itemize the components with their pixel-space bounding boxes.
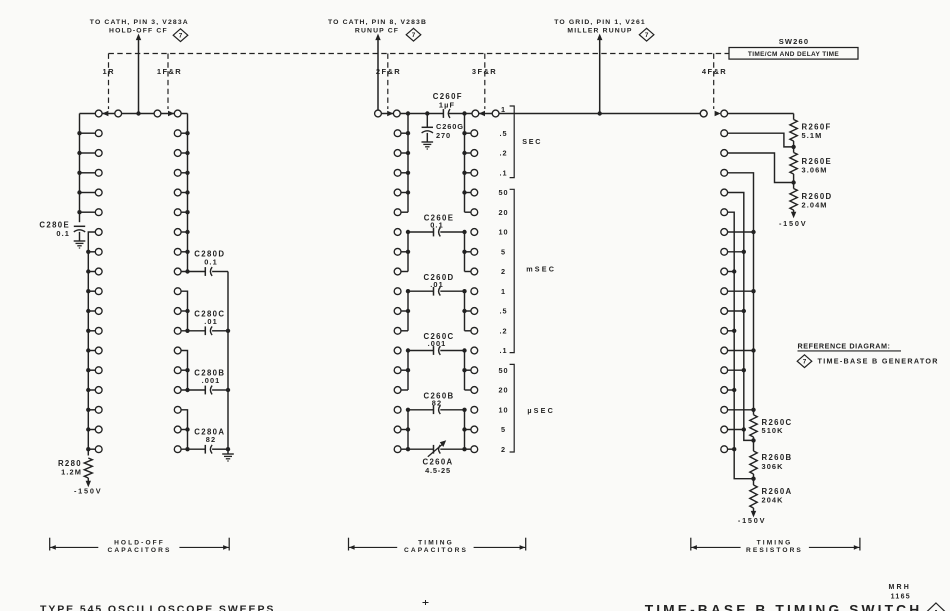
section bracket: hold-off capacitors [49, 538, 51, 551]
svg-text:REFERENCE DIAGRAM:: REFERENCE DIAGRAM: [798, 341, 891, 350]
contact wafer1 left row 10 [95, 308, 102, 315]
contact wafer1 left row 8 [95, 268, 102, 275]
svg-text:0.1: 0.1 [430, 221, 444, 230]
wire: wafer4 bus A (1-2-5 decade) [727, 173, 753, 415]
wafer actuating line 1R [108, 54, 110, 110]
ground (C280E) [74, 240, 86, 242]
contact wafer4 row 12 [721, 347, 728, 354]
svg-text:.1: .1 [499, 168, 507, 177]
svg-text:20: 20 [498, 386, 508, 395]
svg-text:2F&R: 2F&R [376, 67, 401, 76]
capacitor C260C .001 [408, 350, 434, 352]
contact wafer2 left row 10 [394, 308, 401, 315]
contact wafer1 right row 13 [174, 367, 181, 374]
resistor R260C 510K [750, 415, 757, 437]
capacitor C260E 0.1 [408, 231, 434, 233]
svg-text:82: 82 [432, 398, 442, 407]
junction R260E/R260D [791, 180, 795, 184]
wire: wafer2 left bus rows 6-8 [407, 232, 409, 272]
resistor R260B 306K [753, 440, 755, 451]
junction C260G tap [425, 111, 429, 115]
contact wafer1 left row 2 [95, 150, 102, 157]
title end diamond (clipped) [926, 603, 947, 611]
contact wafer2 right row 2 [471, 150, 478, 157]
contact wafer2 left row 1 [394, 130, 401, 137]
contact wafer2 right row 6 [471, 229, 478, 236]
svg-text:TIMING: TIMING [418, 539, 454, 546]
svg-text:1F&R: 1F&R [157, 67, 182, 76]
wire: wafer1 left bus lower [88, 232, 95, 456]
contact wafer2 right row 8 [471, 268, 478, 275]
contact wafer2 left row 3 [394, 169, 401, 176]
resistor R280 1.2M [84, 458, 92, 478]
wire: wafer2 right bus rows 6-8 [464, 232, 466, 272]
contact runup lead [375, 110, 382, 117]
wire: wafer4 bus C [727, 212, 753, 479]
contact wafer1 right row 16 [174, 426, 181, 433]
contact wafer4 row 1 [721, 130, 728, 137]
svg-text:C260G: C260G [436, 122, 464, 131]
contact wafer2 right row 12 [471, 347, 478, 354]
wire: wafer4 row2 to R260E junction [727, 153, 793, 183]
contact wafer1 left row 7 [95, 248, 102, 255]
wafer actuating line 3F&R [484, 54, 486, 110]
contact wafer2 right row 13 [471, 367, 478, 374]
contact wafer2 left row 6 [394, 229, 401, 236]
contact wafer1 right row 2 [174, 150, 181, 157]
contact wafer1 right row 7 [174, 248, 181, 255]
contact wafer4 row 2 [721, 150, 728, 157]
wire: wafer2 left bus rows 15-17 [407, 410, 409, 449]
contact wafer2 right row 7 [471, 248, 478, 255]
svg-text:TIME-BASE B GENERATOR: TIME-BASE B GENERATOR [818, 357, 939, 366]
contact wafer4 row 17 [721, 446, 728, 453]
contact wafer4 row 13 [721, 367, 728, 374]
wire: wafer2 right bus rows 15-17 [464, 410, 466, 449]
contact wafer2 left row 5 [394, 209, 401, 216]
contact wafer2 left row 15 [394, 406, 401, 413]
contact wafer4 row 5 [721, 209, 728, 216]
wire: wafer2 right bus upper [464, 114, 466, 213]
switch SW260 name box [729, 48, 858, 60]
contact wafer4 row 3 [721, 169, 728, 176]
contact wafer2 right row 10 [471, 308, 478, 315]
contact wafer2 right row 16 [471, 426, 478, 433]
svg-text:CAPACITORS: CAPACITORS [404, 547, 468, 554]
svg-text:7: 7 [412, 32, 416, 39]
reference diamond 7 (runup) [406, 28, 421, 41]
svg-text:1µF: 1µF [439, 100, 455, 109]
contact wafer2 left row 12 [394, 347, 401, 354]
contact 1R rotor b [115, 110, 122, 117]
svg-text:1165: 1165 [891, 594, 911, 601]
wire: runup output lead with up arrow [377, 40, 379, 110]
svg-text:.01: .01 [430, 280, 444, 289]
svg-text:50: 50 [498, 188, 508, 197]
svg-text:TIME-BASE B TIMING SWITCH: TIME-BASE B TIMING SWITCH [645, 602, 923, 611]
contact wafer1 right row 15 [174, 406, 181, 413]
contact wafer4 row 8 [721, 268, 728, 275]
contact wafer1 left row 9 [95, 288, 102, 295]
svg-text:.001: .001 [202, 376, 221, 385]
wire: wafer1 right bus upper [187, 114, 189, 272]
contact wafer1 right row 4 [174, 189, 181, 196]
svg-text:0.1: 0.1 [204, 258, 218, 267]
contact wafer2 right row 15 [471, 406, 478, 413]
svg-text:.5: .5 [499, 307, 507, 316]
svg-text:510K: 510K [762, 426, 784, 435]
ground (C260G) [422, 141, 434, 143]
svg-text:RUNUP CF: RUNUP CF [355, 27, 399, 34]
svg-text:50: 50 [498, 366, 508, 375]
svg-text:7: 7 [803, 359, 807, 366]
junction on timing bus at miller lead [598, 111, 602, 115]
wafer actuating line 2F&R [387, 54, 389, 110]
contact wafer1 left row 12 [95, 347, 102, 354]
svg-text:10: 10 [498, 405, 508, 414]
wire to -150V (R280) [87, 478, 89, 482]
contact wafer1 right row 14 [174, 387, 181, 394]
svg-text:20: 20 [498, 208, 508, 217]
contact wafer1 left row 5 [95, 209, 102, 216]
svg-text:MRH: MRH [889, 584, 912, 591]
contact wafer1 left row 17 [95, 446, 102, 453]
contact wafer4 row 11 [721, 327, 728, 334]
capacitor C260D .01 [408, 290, 434, 292]
contact wafer1 right row 10 [174, 308, 181, 315]
wire: miller runup lead with up arrow [599, 40, 601, 114]
contact wafer1 right row 12 [174, 347, 181, 354]
contact wafer4 rotor b [721, 110, 728, 117]
reference diamond 7 (hold-off) [173, 29, 188, 42]
bracket uSEC [510, 364, 515, 452]
contact wafer1 right row 17 [174, 446, 181, 453]
contact wafer2 left row 16 [394, 426, 401, 433]
svg-text:TIMING: TIMING [757, 539, 793, 546]
svg-text:TIME/CM AND DELAY TIME: TIME/CM AND DELAY TIME [748, 51, 840, 58]
svg-text:2: 2 [501, 267, 506, 276]
contact 3F&R target [472, 110, 479, 117]
reference diamond 7 (time-base B generator) [797, 355, 812, 368]
wire: wafer1 left bus upper [79, 114, 81, 223]
switch SW260 mechanical linkage (dashed) [109, 53, 730, 55]
wire: wafer2 left bus upper [407, 114, 409, 213]
svg-text:HOLD-OFF: HOLD-OFF [114, 539, 165, 546]
contact wafer4 row 7 [721, 248, 728, 255]
contact wafer1 right row 9 [174, 288, 181, 295]
svg-text:-150V: -150V [779, 219, 807, 228]
wafer actuating line 4F&R [713, 54, 715, 110]
svg-text:10: 10 [498, 228, 508, 237]
capacitor C260G 270 [426, 114, 428, 128]
capacitor C280E [74, 225, 85, 227]
capacitor C260B 82 [408, 409, 434, 411]
contact wafer4 row 9 [721, 288, 728, 295]
contact 1R rotor a [95, 110, 102, 117]
junction R260F/R260E [791, 145, 795, 149]
wire: wafer1 right bus group rows 9-11 [181, 291, 188, 331]
wire: wafer4 bus B [727, 193, 753, 441]
svg-text:5.1M: 5.1M [802, 131, 823, 140]
capacitor C260F 1uF (series) [442, 109, 444, 118]
svg-text:MILLER RUNUP: MILLER RUNUP [567, 27, 632, 34]
contact wafer1 right row 6 [174, 229, 181, 236]
contact wafer2 right row 17 [471, 446, 478, 453]
contact wafer2 right row 5 [471, 209, 478, 216]
capacitor C280D 0.1 [204, 267, 206, 276]
contact wafer4 row 14 [721, 387, 728, 394]
resistor R260D 2.04M [793, 183, 795, 189]
svg-text:TYPE 545 OSCILLOSCOPE SWEEPS: TYPE 545 OSCILLOSCOPE SWEEPS [40, 604, 275, 611]
contact wafer1 left row 1 [95, 130, 102, 137]
svg-text:TO GRID, PIN 1, V261: TO GRID, PIN 1, V261 [554, 19, 646, 26]
contact wafer4 row 16 [721, 426, 728, 433]
contact wafer2 left row 9 [394, 288, 401, 295]
svg-text:0.1: 0.1 [56, 229, 70, 238]
wire: hold-off output lead with up arrow [138, 40, 140, 114]
svg-text:-150V: -150V [74, 487, 102, 496]
section bracket: timing resistors [690, 538, 692, 551]
svg-text:.5: .5 [499, 129, 507, 138]
contact 1F&R rotor a [154, 110, 161, 117]
contact wafer1 right row 8 [174, 268, 181, 275]
contact 1F&R rotor b [174, 110, 181, 117]
contact wafer1 left row 14 [95, 387, 102, 394]
contact wafer2 right row 4 [471, 189, 478, 196]
svg-text:4F&R: 4F&R [702, 67, 727, 76]
contact wafer1 left row 13 [95, 367, 102, 374]
svg-text:2.04M: 2.04M [802, 200, 828, 209]
contact wafer1 left row 16 [95, 426, 102, 433]
bracket mSEC [510, 189, 515, 352]
wire: wafer4 rotor line to resistor chain [727, 113, 793, 115]
svg-text:270: 270 [436, 131, 451, 140]
section bracket: timing capacitors [348, 538, 350, 551]
contact wafer1 right row 1 [174, 130, 181, 137]
svg-text:.2: .2 [499, 149, 507, 158]
wire: wafer 2-3 rotor line [378, 113, 443, 115]
svg-text:2: 2 [501, 445, 506, 454]
svg-text:µSEC: µSEC [527, 406, 555, 415]
reference diamond 7 (miller) [639, 28, 654, 41]
svg-text:5: 5 [501, 247, 506, 256]
svg-text:SEC: SEC [522, 137, 542, 146]
svg-text:R260B: R260B [762, 453, 793, 462]
resistor R260F 5.1M [793, 114, 795, 120]
svg-text:7: 7 [645, 32, 649, 39]
svg-text:7: 7 [179, 33, 183, 40]
contact wafer2 right row 1 [471, 130, 478, 137]
contact wafer2 left row 14 [394, 387, 401, 394]
svg-text:TO CATH, PIN 8, V283B: TO CATH, PIN 8, V283B [328, 19, 427, 26]
contact wafer2 right row 3 [471, 169, 478, 176]
wire: hold-off cap common return [227, 272, 229, 455]
contact wafer1 left row 11 [95, 327, 102, 334]
contact wafer2 right row 11 [471, 327, 478, 334]
svg-text:.001: .001 [428, 339, 447, 348]
contact wafer4 row 4 [721, 189, 728, 196]
wafer actuating line 1F&R [167, 54, 169, 110]
contact wafer2 right rotor b [492, 110, 499, 117]
contact wafer4 row 10 [721, 308, 728, 315]
wire: wafer2 left bus rows 9-11 [407, 291, 409, 331]
capacitor C280A 82 [204, 445, 206, 454]
svg-text:.01: .01 [204, 317, 218, 326]
contact wafer4 row 6 [721, 229, 728, 236]
capacitor C280B .001 [204, 386, 206, 395]
junction R260B/R260A [751, 477, 755, 481]
ground (hold-off caps) [222, 453, 234, 455]
svg-text:RESISTORS: RESISTORS [746, 547, 803, 554]
contact wafer2-3 line end [700, 110, 707, 117]
svg-text:CAPACITORS: CAPACITORS [108, 547, 172, 554]
svg-text:-150V: -150V [738, 516, 766, 525]
wire: wafer1 right bus group rows 15-17 [181, 410, 188, 449]
contact wafer1 left row 6 [95, 229, 102, 236]
contact wafer2 left row 11 [394, 327, 401, 334]
junction R260C/R260B [751, 438, 755, 442]
svg-text:SW260: SW260 [779, 37, 810, 46]
wire: wafer4 row1 to R260F junction [727, 133, 793, 147]
svg-text:3F&R: 3F&R [472, 67, 497, 76]
svg-text:204K: 204K [762, 496, 784, 505]
svg-text:1R: 1R [103, 67, 116, 76]
svg-text:4.5-25: 4.5-25 [425, 466, 451, 475]
svg-text:1: 1 [501, 105, 506, 114]
contact wafer2 left row 8 [394, 268, 401, 275]
svg-text:mSEC: mSEC [526, 264, 556, 273]
svg-text:1.2M: 1.2M [61, 468, 82, 477]
contact wafer2 right row 14 [471, 387, 478, 394]
svg-text:306K: 306K [762, 462, 784, 471]
junction wafer2 left bus [406, 111, 410, 115]
contact wafer2 left row 7 [394, 248, 401, 255]
contact wafer1 left row 4 [95, 189, 102, 196]
contact wafer1 left row 3 [95, 169, 102, 176]
wire: wafer 1 rotor line [80, 113, 188, 115]
resistor R260A 204K [753, 479, 755, 485]
svg-text:3.06M: 3.06M [802, 165, 828, 174]
contact wafer2 left row 2 [394, 150, 401, 157]
contact wafer2 right row 9 [471, 288, 478, 295]
svg-text:.2: .2 [499, 326, 507, 335]
contact wafer4 rotor a [700, 110, 707, 117]
wire: wafer2 right bus rows 12-14 [464, 351, 466, 391]
capacitor C260A 4.5-25 (variable) [408, 448, 434, 450]
contact wafer2 left row 13 [394, 367, 401, 374]
registration mark [423, 602, 429, 604]
capacitor C280C .01 [204, 326, 206, 335]
svg-text:1: 1 [501, 287, 506, 296]
contact wafer2 left row 4 [394, 189, 401, 196]
contact wafer1 left row 15 [95, 406, 102, 413]
wire: wafer2 right bus rows 9-11 [464, 291, 466, 331]
svg-text:5: 5 [501, 425, 506, 434]
contact wafer1 right row 5 [174, 209, 181, 216]
svg-text:TO CATH, PIN 3, V283A: TO CATH, PIN 3, V283A [90, 19, 189, 26]
wire: wafer2 left bus rows 12-14 [407, 351, 409, 391]
resistor R260E 3.06M [793, 147, 795, 153]
contact wafer4 row 15 [721, 406, 728, 413]
contact wafer2 left row 17 [394, 446, 401, 453]
junction wafer2 right bus [462, 111, 466, 115]
contact 2F&R target [393, 110, 400, 117]
svg-text:82: 82 [206, 435, 216, 444]
contact wafer1 right row 3 [174, 169, 181, 176]
contact wafer1 right row 11 [174, 327, 181, 334]
svg-text:.1: .1 [499, 346, 507, 355]
svg-text:HOLD-OFF CF: HOLD-OFF CF [109, 27, 168, 34]
wire: wafer1 right bus group rows 12-14 [181, 351, 188, 391]
bracket SEC [510, 106, 515, 178]
junction at hold-off lead [136, 111, 140, 115]
